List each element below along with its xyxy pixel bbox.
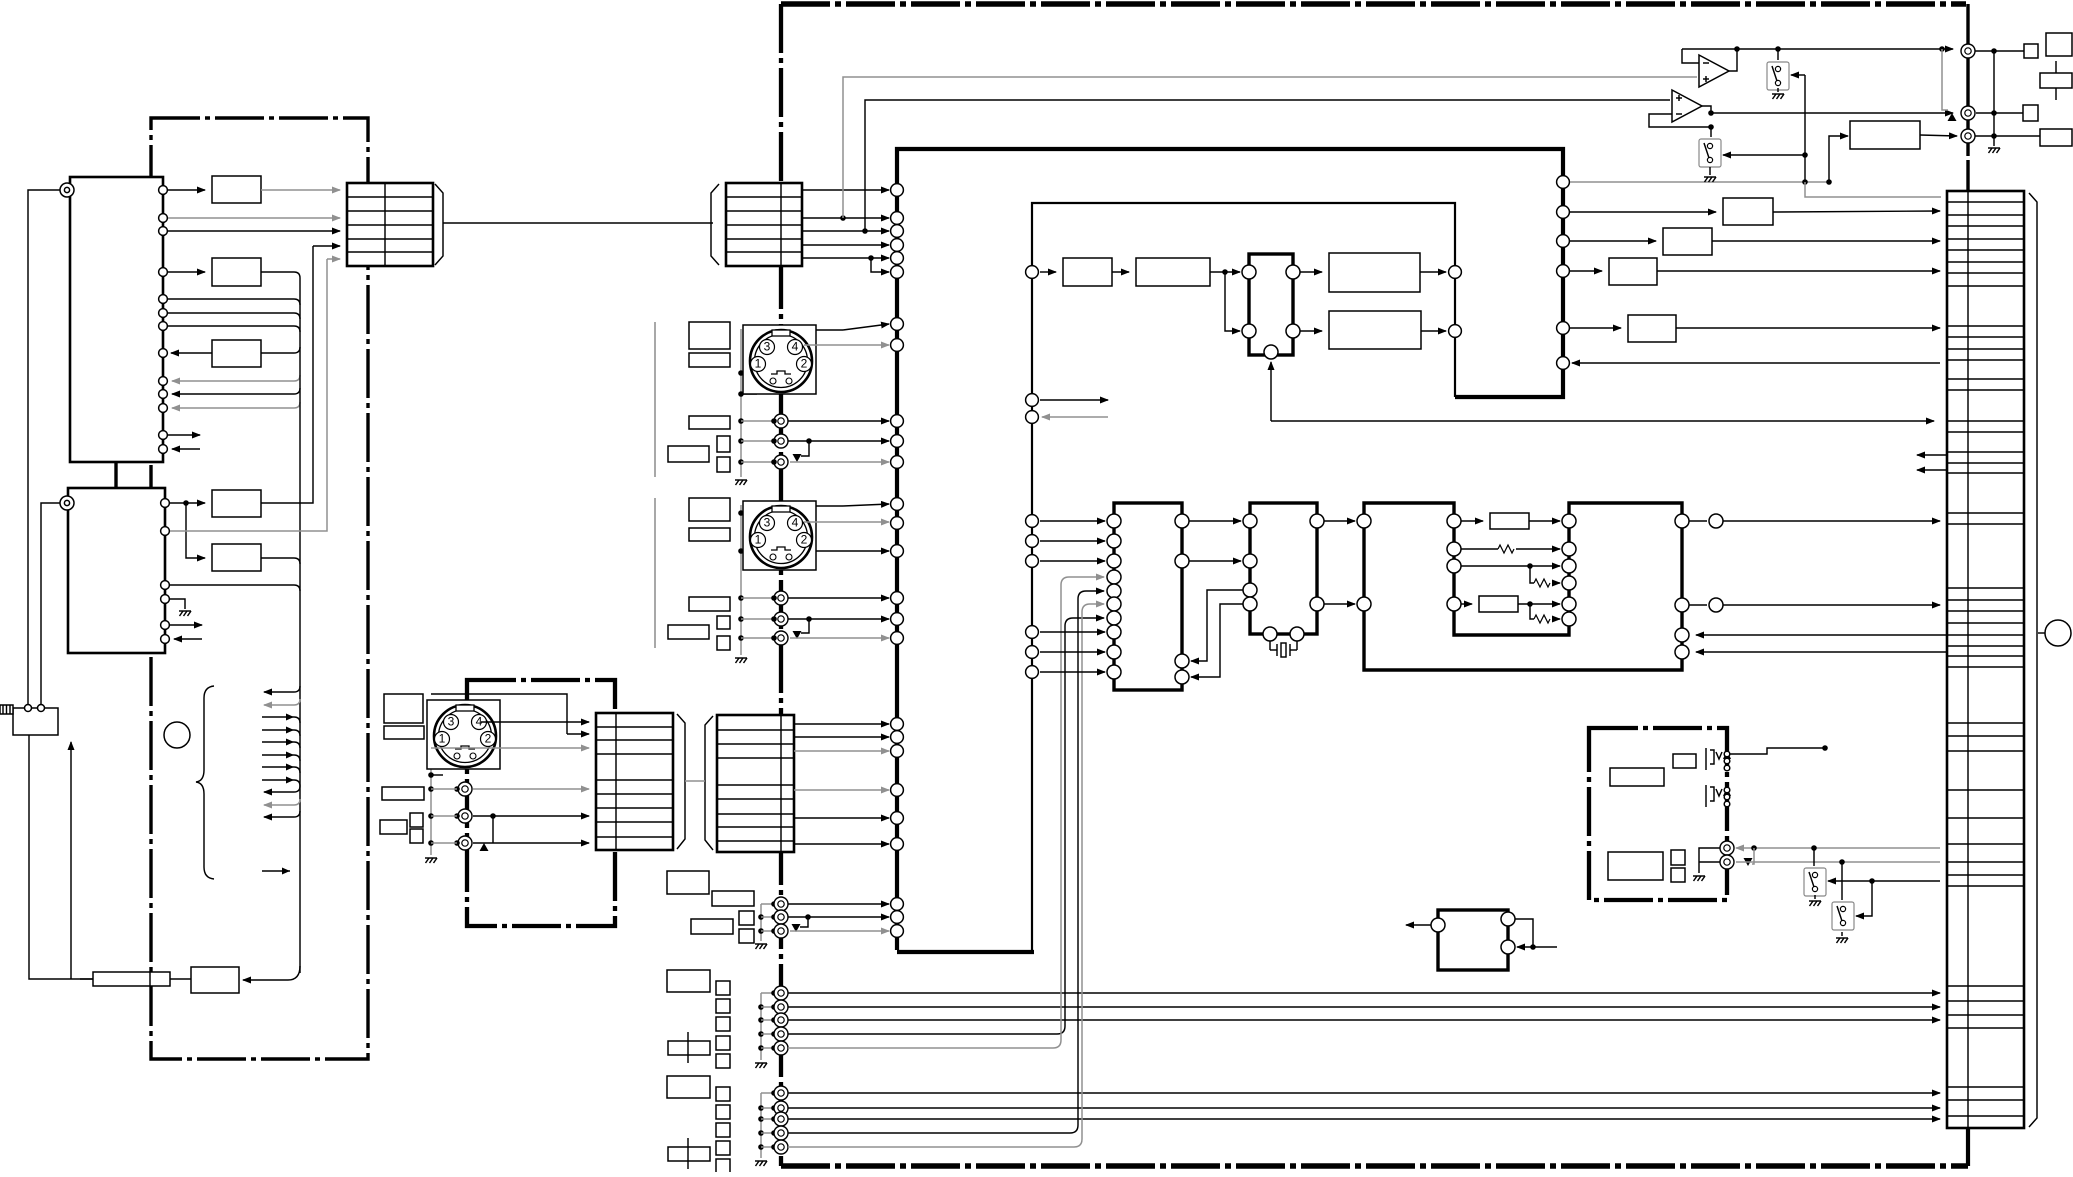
power plug xyxy=(0,705,58,735)
node on x=897 y=844 xyxy=(891,838,904,851)
DIN1 pin4 wire xyxy=(804,344,889,346)
pin circle box1 y=313 xyxy=(159,309,168,318)
ICB xtal pin2 xyxy=(1290,627,1304,641)
connector CN5 (main board) xyxy=(1947,191,2024,1128)
pin circle box1 y=326 xyxy=(159,322,168,331)
branch wire xyxy=(1225,272,1240,331)
gray branch to J2 xyxy=(1942,49,1948,110)
RCA jack C2 xyxy=(458,809,472,823)
ICD notchR pin y=604 xyxy=(1562,597,1576,611)
flow triangle K2 xyxy=(1744,858,1753,866)
stub arrow out xyxy=(170,624,202,626)
gray leader line 2 xyxy=(654,498,656,648)
svg-text:1: 1 xyxy=(755,533,762,547)
svg-text:2: 2 xyxy=(485,732,492,746)
output amp block xyxy=(1850,121,1920,149)
block B1 (left module) xyxy=(212,176,261,203)
wire B2 out to bus xyxy=(261,272,300,278)
node on x=897 y=258 xyxy=(891,252,904,265)
block B4 (left module) xyxy=(212,490,261,517)
wire B-D xyxy=(1324,603,1355,605)
pin circle box2 y=503 xyxy=(161,499,170,508)
node on x=1032 y=400 xyxy=(1026,394,1039,407)
panel jack J2 xyxy=(1961,106,1975,120)
CN3 bracket xyxy=(677,714,685,849)
jack F1 long wire xyxy=(788,1092,1940,1094)
feedback wire B-A 1 xyxy=(1191,590,1243,661)
IC block B xyxy=(1250,503,1317,634)
RCA jack C1 xyxy=(458,782,472,796)
ground xyxy=(735,658,747,663)
trimmer top right xyxy=(2040,61,2072,100)
pin circle box1 y=394 xyxy=(159,390,168,399)
AV jack module dash-dot box xyxy=(1589,728,1727,900)
wire xyxy=(1040,520,1105,522)
ICA pin y=652 xyxy=(1107,645,1121,659)
jack A1 wire xyxy=(788,420,889,422)
return wire row363 xyxy=(1572,362,1940,364)
CN4 wire row2 xyxy=(794,736,889,738)
node on x=897 y=724 xyxy=(891,718,904,731)
trimmer group2 xyxy=(668,1032,710,1063)
wire row241 xyxy=(1570,240,1656,242)
wire xyxy=(1420,271,1446,273)
B3 out to pin xyxy=(171,352,212,354)
DIN2 housing wire xyxy=(843,504,889,506)
node on x=1563 y=241 xyxy=(1557,235,1570,248)
CN4 wire row7 xyxy=(794,843,889,845)
jack F5 wire via bus xyxy=(788,604,1104,1147)
phone jack symbol 2 xyxy=(1706,785,1722,807)
label sq xyxy=(1671,868,1685,882)
pin circle box2 y=531 xyxy=(161,527,170,536)
RCA jack F1 xyxy=(774,1086,788,1100)
flow triangle J2 xyxy=(1948,113,1957,121)
notch row 604 xyxy=(1461,603,1472,605)
U2 output to jack2 xyxy=(1711,112,1953,114)
pin circle box2 y=585 xyxy=(161,581,170,590)
ICD left pin y=521 xyxy=(1357,514,1371,528)
U1 feedback xyxy=(1682,49,1699,63)
ICD right pin y=652 xyxy=(1675,645,1689,659)
ground xyxy=(1809,901,1821,906)
ground bus DIN3 xyxy=(430,744,432,855)
node on x=897 y=324 xyxy=(891,318,904,331)
DIN3 labels xyxy=(384,694,423,723)
wire into SW4 from line y862 xyxy=(1841,862,1843,900)
ICA pin y=604 xyxy=(1107,597,1121,611)
terminal T1 xyxy=(60,183,74,197)
delay block 2 xyxy=(1479,596,1518,612)
right border segments on x=1968 xyxy=(1966,4,1969,44)
mute relay box xyxy=(1438,910,1508,970)
resistor xyxy=(1534,615,1550,623)
main right module dash-dot border left xyxy=(779,4,783,1166)
pin circle box1 y=435 xyxy=(159,431,168,440)
mute out1 xyxy=(1501,912,1515,926)
RCA jack E1 xyxy=(774,986,788,1000)
node on x=1032 y=417 xyxy=(1026,411,1039,424)
buffer 4 xyxy=(1628,315,1676,342)
gray riser to connector row6 xyxy=(170,259,327,531)
ground xyxy=(179,611,191,616)
DIN1 wire housing xyxy=(816,329,843,331)
phone jack symbol 1 xyxy=(1706,748,1722,770)
svg-text:2: 2 xyxy=(801,357,808,371)
ground bus DIN2 xyxy=(740,505,742,655)
ICB out2 xyxy=(1310,597,1324,611)
RCA jack E4 xyxy=(774,1027,788,1041)
CN1 bracket xyxy=(435,184,443,265)
wire xyxy=(1040,651,1105,653)
AV K1 wire xyxy=(1736,847,1940,849)
main right module dash-dot border bottom xyxy=(781,1163,1968,1169)
node on x=1032 y=561 xyxy=(1026,555,1039,568)
wire into SW3 xyxy=(1828,880,1940,882)
CN4 wire row3 xyxy=(794,750,889,752)
node on x=1032 y=632 xyxy=(1026,626,1039,639)
wire A-B xyxy=(1189,560,1241,562)
bus to pin row408 xyxy=(172,402,300,408)
labels group2 xyxy=(667,970,710,992)
fan stub xyxy=(262,767,300,773)
wire into B2 xyxy=(168,271,205,273)
RCA jack F2 xyxy=(774,1101,788,1115)
jack F3 long wire xyxy=(788,1118,1940,1120)
return wire 1 xyxy=(1696,634,1947,636)
node on x=897 y=737 xyxy=(891,731,904,744)
label rects DIN2 xyxy=(689,498,730,521)
gray line from node 182 xyxy=(1570,181,1829,183)
wire arrow up into plug xyxy=(70,742,72,979)
node on x=1563 y=182 xyxy=(1557,176,1570,189)
resistor xyxy=(1498,545,1514,553)
CN2 wire row2 xyxy=(802,217,889,219)
buffer 2 xyxy=(1663,228,1712,255)
ICD notchR pin y=583 xyxy=(1562,576,1576,590)
wire xyxy=(1421,330,1446,332)
sync return wire xyxy=(1270,362,1272,421)
J1 right side xyxy=(1975,50,2024,52)
ground xyxy=(1772,94,1784,99)
gray sense line risers xyxy=(843,77,1697,218)
ground xyxy=(1988,148,2000,153)
wire row328 xyxy=(1570,327,1621,329)
riser x=1805 xyxy=(1804,75,1806,182)
fuse F1 xyxy=(80,972,191,986)
RCA jack B3 xyxy=(774,631,788,645)
fan stub xyxy=(262,717,300,723)
jack C1 wire xyxy=(473,788,589,790)
row599 to ground xyxy=(170,599,185,609)
CN2 wire row1 xyxy=(802,189,889,191)
svg-text:1: 1 xyxy=(439,732,446,746)
switch SW1 xyxy=(1767,62,1789,90)
label rects DIN1 xyxy=(689,322,730,349)
block B2 (left module) xyxy=(212,258,261,286)
jack C3 wire xyxy=(473,842,589,844)
jack E2 long wire xyxy=(788,1006,1940,1008)
ground chain x=1994 xyxy=(1993,51,1995,146)
wire row299 to bus xyxy=(168,299,300,305)
DIN2 pin4 wire xyxy=(804,521,889,523)
node out1 xyxy=(1709,514,1723,528)
bus to pin row394 xyxy=(172,388,300,394)
indicator circle xyxy=(164,722,190,748)
switch SW4 xyxy=(1832,902,1854,930)
DIN3 shield wire xyxy=(431,747,589,749)
sync box xyxy=(1249,254,1293,355)
CN2 bracket xyxy=(711,184,719,265)
node on x=897 y=345 xyxy=(891,339,904,352)
pin circle box1 y=272 xyxy=(159,268,168,277)
node out2 xyxy=(1709,598,1723,612)
stub arrow in xyxy=(172,448,200,450)
ICB pin y=590 xyxy=(1243,583,1257,597)
node on x=897 y=421 xyxy=(891,415,904,428)
stub arrow out xyxy=(168,434,200,436)
label xyxy=(1673,754,1696,768)
wire from T1 to power plug xyxy=(28,190,60,705)
RCA jack C3 xyxy=(458,836,472,850)
S-video connector DIN1 xyxy=(743,325,816,394)
panel jack J1 xyxy=(1961,44,1975,58)
wire A-B xyxy=(1189,520,1241,522)
main signal box thick outline xyxy=(897,149,1563,950)
jack A3 wire xyxy=(790,461,889,463)
ICA pin y=591 xyxy=(1107,584,1121,598)
pin circle box1 y=231 xyxy=(159,227,168,236)
node on x=897 y=931 xyxy=(891,925,904,938)
filter block 1 xyxy=(1063,258,1112,286)
sync bottom pin xyxy=(1264,345,1278,359)
CN2 wire row3 xyxy=(802,230,889,232)
wire stub between IC blocks xyxy=(114,462,117,488)
ICD notchL pin y=566 xyxy=(1447,559,1461,573)
label xyxy=(1608,852,1663,880)
ground xyxy=(755,944,767,949)
small module dash-dot box around DIN3 xyxy=(467,680,615,926)
svg-text:4: 4 xyxy=(792,516,799,530)
jack F2 long wire xyxy=(788,1107,1940,1109)
ground xyxy=(1704,177,1716,182)
wire xyxy=(1112,271,1129,273)
left module (VCR deck) dash-dot border xyxy=(151,118,368,1059)
CN4 wire row5 xyxy=(794,789,889,791)
notch row 566 xyxy=(1461,565,1560,567)
RCA jack D3 xyxy=(774,924,788,938)
jack E3 long wire xyxy=(788,1019,1940,1021)
stub arrows near CN5 rows 455/470 xyxy=(1917,454,1946,456)
node on x=897 y=504 xyxy=(891,498,904,511)
wire to connector row3 xyxy=(168,230,340,232)
wire to jack3 xyxy=(1920,135,1957,136)
sync in1 xyxy=(1242,265,1256,279)
DIN3 pin4 wire xyxy=(481,721,589,723)
CN4 wire row6 xyxy=(794,817,889,819)
node on x=1563 y=363 xyxy=(1557,357,1570,370)
RCA jack B2 xyxy=(774,612,788,626)
op-amp U1 xyxy=(1699,55,1729,87)
RCA jack E3 xyxy=(774,1013,788,1027)
node on x=897 y=272 xyxy=(891,266,904,279)
node on x=897 y=231 xyxy=(891,225,904,238)
ICA out pin y=661 xyxy=(1175,654,1189,668)
ICB xtal pin1 xyxy=(1263,627,1277,641)
RCA jack F3 xyxy=(774,1112,788,1126)
fan stub xyxy=(264,686,300,692)
ground bus group2 xyxy=(760,993,762,1060)
ICA pin y=521 xyxy=(1107,514,1121,528)
DIN2 pin2 wire xyxy=(816,550,889,552)
CN4 bracket xyxy=(705,716,713,850)
labels group1 xyxy=(667,871,709,894)
cap C2 xyxy=(2023,105,2038,121)
pin circle box1 y=299 xyxy=(159,295,168,304)
jack B1 wire xyxy=(788,597,889,599)
AV jack K1 xyxy=(1720,841,1734,855)
svg-text:1: 1 xyxy=(755,357,762,371)
pin circle box1 y=408 xyxy=(159,404,168,413)
block B5 (left module) xyxy=(212,544,261,571)
filter block 2 xyxy=(1136,258,1210,286)
flow triangle xyxy=(793,631,802,639)
sync out2 xyxy=(1286,324,1300,338)
jack D2 wire xyxy=(788,916,889,918)
J3 right side xyxy=(1975,135,2040,137)
node on x=897 y=619 xyxy=(891,613,904,626)
row585 to bus xyxy=(170,585,300,591)
jack E4 wire via bus xyxy=(788,618,1104,1034)
main signal box medium outline xyxy=(1032,203,1455,950)
label xyxy=(1610,768,1664,786)
jack F4 wire via bus xyxy=(788,591,1104,1133)
B5 out to bus xyxy=(261,558,300,564)
wire into SW1 xyxy=(1791,74,1805,76)
bus bottom into regulator xyxy=(243,966,300,980)
pin circle box1 y=381 xyxy=(159,377,168,386)
ICA pin y=541 xyxy=(1107,534,1121,548)
long wire to CN5 xyxy=(1723,604,1940,606)
ICD right pin y=521 xyxy=(1675,514,1689,528)
RCA jack E5 xyxy=(774,1041,788,1055)
node on x=1032 y=521 xyxy=(1026,515,1039,528)
flow triangle xyxy=(792,924,801,932)
U1 output riser xyxy=(1729,49,1737,71)
terminal T2 xyxy=(60,496,74,510)
ground xyxy=(755,1063,767,1068)
fan stub xyxy=(262,755,300,761)
sync out1 xyxy=(1286,265,1300,279)
wire to connector row1 xyxy=(261,189,340,191)
trimmer group3 xyxy=(668,1138,710,1169)
RCA jack D2 xyxy=(774,910,788,924)
RCA jack A3 xyxy=(774,455,788,469)
node on x=1455 y=272 xyxy=(1449,266,1462,279)
node on x=1032 y=672 xyxy=(1026,666,1039,679)
CN2 wire row5 xyxy=(802,257,889,259)
ground xyxy=(425,858,437,863)
node on x=897 y=441 xyxy=(891,435,904,448)
RCA jack A1 xyxy=(774,414,788,428)
ground xyxy=(1693,876,1705,881)
ICA pin y=632 xyxy=(1107,625,1121,639)
node on x=897 y=638 xyxy=(891,632,904,645)
fan stub xyxy=(264,799,300,805)
RCA jack B1 xyxy=(774,591,788,605)
svg-text:3: 3 xyxy=(764,340,771,354)
ICD notchR pin y=619 xyxy=(1562,612,1576,626)
wire xyxy=(1040,671,1105,673)
ICA out pin y=521 xyxy=(1175,514,1189,528)
labels group3 xyxy=(667,1076,710,1098)
node on x=897 y=790 xyxy=(891,784,904,797)
ICD left pin y=604 xyxy=(1357,597,1371,611)
fan stub xyxy=(262,730,300,736)
delay block xyxy=(1490,513,1529,529)
stub arrow in xyxy=(174,638,202,640)
mute arrow out xyxy=(1406,924,1431,926)
ICB pin y=604 xyxy=(1243,597,1257,611)
S-video connector DIN3 xyxy=(427,700,500,769)
jack D3 wire xyxy=(790,930,889,932)
panel jack J3 xyxy=(1961,129,1975,143)
connector CN2 xyxy=(726,183,802,266)
connector CN1 xyxy=(347,183,433,266)
wire xyxy=(1300,330,1322,332)
RCA jack E2 xyxy=(774,1000,788,1014)
ground bus DIN1 xyxy=(740,329,742,477)
jack E1 long wire xyxy=(788,992,1940,994)
big IC block left top xyxy=(70,177,163,462)
pin circle box1 y=218 xyxy=(159,214,168,223)
fan bottom stub xyxy=(262,870,290,872)
node on x=897 y=245 xyxy=(891,239,904,252)
ground xyxy=(735,480,747,485)
ground xyxy=(1836,938,1848,943)
bus to pin row381 xyxy=(172,375,300,381)
wire xyxy=(1040,631,1105,633)
RCA jack F5 xyxy=(774,1140,788,1154)
connector CN3 xyxy=(596,713,673,850)
pin circle box2 y=625 xyxy=(161,621,170,630)
wire xyxy=(1300,271,1322,273)
RCA jack D1 xyxy=(774,897,788,911)
cable CN1 to CN2 xyxy=(443,222,713,224)
ICA pin y=672 xyxy=(1107,665,1121,679)
svg-text:2: 2 xyxy=(801,533,808,547)
label block 2 xyxy=(2040,129,2072,146)
ICD right pin y=605 xyxy=(1675,598,1689,612)
J2 right side xyxy=(1976,112,2023,114)
ICD notchL pin y=604 xyxy=(1447,597,1461,611)
wire from T2 to power plug xyxy=(41,503,60,705)
node on x=897 y=598 xyxy=(891,592,904,605)
node on x=1563 y=271 xyxy=(1557,265,1570,278)
wire xyxy=(1040,271,1056,273)
RCA jack F4 xyxy=(774,1126,788,1140)
connector CN4 xyxy=(717,715,794,852)
ICA pin y=577 xyxy=(1107,570,1121,584)
flow triangle xyxy=(793,454,802,462)
IC block A xyxy=(1114,503,1182,690)
fan stub xyxy=(264,811,300,817)
S-video connector DIN2 xyxy=(743,501,816,570)
svg-text:3: 3 xyxy=(448,715,455,729)
feedback wire B-A 2 xyxy=(1191,604,1243,677)
wire xyxy=(168,189,205,191)
riser to connector row5 xyxy=(261,246,313,503)
